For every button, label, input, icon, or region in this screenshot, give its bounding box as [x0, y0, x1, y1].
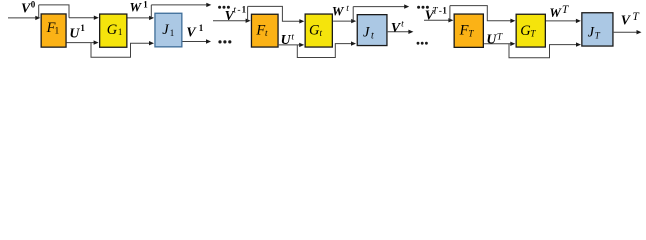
wire VT output: [614, 31, 637, 33]
svg-text:t: t: [346, 4, 349, 14]
box F1: [41, 14, 66, 47]
wire bypass over F1: [39, 5, 69, 18]
box FT: [454, 14, 483, 47]
svg-text:t: t: [401, 20, 404, 30]
svg-text:1: 1: [118, 27, 123, 37]
wire UT rail from FT to GT: [484, 43, 511, 45]
wire V(T-1) input arrow: [424, 19, 449, 21]
node junction on V(t-1) wire: [247, 6, 249, 20]
arrowhead V(T-1) into FT: [448, 18, 453, 22]
wire bypass over Ft: [248, 6, 301, 21]
wire V1 output: [183, 41, 207, 43]
wire Vt output: [388, 31, 409, 33]
wire Ut rail from Ft to Gt: [279, 44, 300, 46]
box JT: [582, 13, 613, 46]
node junction on Wt wire: [352, 7, 354, 22]
wire WT rail from GT to JT: [546, 20, 577, 22]
node junction on V0 wire: [38, 5, 40, 18]
box J1: [155, 13, 182, 47]
svg-text:1: 1: [199, 23, 204, 33]
svg-text:1: 1: [143, 0, 148, 9]
svg-text:F: F: [255, 22, 265, 38]
box Ft: [251, 14, 278, 47]
arrowhead UT into GT: [510, 42, 515, 46]
dots top between stage t and T: [417, 6, 420, 9]
svg-text:W: W: [130, 0, 143, 15]
wire V0 input arrow: [8, 17, 36, 19]
svg-text:G: G: [309, 22, 320, 38]
arrowhead bypass into GT: [510, 19, 515, 23]
svg-text:J: J: [162, 22, 169, 38]
svg-text:t: t: [291, 32, 294, 42]
svg-text:G: G: [107, 22, 118, 38]
wire W1 rail from G1 to J1: [128, 17, 151, 19]
svg-text:U: U: [281, 32, 292, 47]
svg-text:W: W: [549, 5, 562, 20]
svg-text:U: U: [486, 32, 497, 47]
wire under-bypass stage T: [509, 44, 577, 58]
svg-text:1: 1: [242, 4, 247, 14]
node junction on V(T-1) wire: [449, 6, 451, 21]
arrowhead bypass into Gt: [299, 19, 304, 23]
svg-text:W: W: [332, 3, 345, 18]
wire V(t-1) input arrow: [213, 20, 246, 22]
dots top between stage 1 and t: [218, 6, 221, 9]
wire under-bypass stage t: [297, 44, 351, 58]
node junction on W1 wire: [150, 5, 152, 18]
svg-text:J: J: [363, 24, 370, 40]
svg-text:U: U: [69, 25, 80, 40]
arrowhead V(t-1) into Ft: [246, 19, 251, 23]
svg-text:t: t: [371, 30, 374, 41]
svg-text:F: F: [459, 22, 469, 38]
svg-text:T: T: [432, 7, 438, 17]
box Jt: [357, 15, 387, 46]
svg-text:J: J: [588, 24, 595, 40]
svg-text:1: 1: [170, 28, 175, 38]
svg-text:1: 1: [55, 26, 60, 36]
arrowhead V1 output: [206, 39, 211, 43]
wire bypass over FT: [450, 6, 511, 21]
wire U1 rail from F1 to G1: [67, 42, 95, 44]
svg-text:T: T: [497, 33, 503, 43]
wire bypass into G1: [69, 17, 95, 19]
arrowhead bypass over J1: [206, 3, 211, 7]
svg-text:-: -: [237, 5, 240, 15]
wire under-bypass from U1 junction: [91, 43, 150, 58]
box Gt: [305, 14, 332, 47]
dots mid between stage t and T: [417, 42, 420, 45]
arrowhead Vt output: [408, 30, 413, 34]
svg-text:1: 1: [442, 6, 447, 16]
arrowhead W1 into J1: [149, 16, 154, 20]
box G1: [100, 14, 127, 47]
arrowhead V0 into F1: [35, 16, 40, 20]
wire bypass over Jt: [353, 6, 405, 8]
arrowhead WT into JT: [576, 19, 581, 23]
arrowhead under-bypass into JT: [576, 42, 581, 46]
arrowhead under-bypass into J1: [149, 41, 154, 45]
arrowhead Wt into Jt: [351, 19, 356, 23]
svg-text:0: 0: [31, 0, 36, 10]
svg-text:t: t: [233, 5, 236, 15]
dots mid between stage 1 and t: [218, 40, 221, 43]
arrowhead VT output: [637, 30, 642, 34]
svg-text:1: 1: [80, 23, 85, 33]
arrowhead under-bypass into Jt: [351, 41, 356, 45]
wire Wt rail from Gt to Jt: [333, 20, 352, 22]
box GT: [516, 14, 545, 47]
wire bypass over J1: [151, 4, 207, 6]
arrowhead into G1 top: [94, 16, 99, 20]
arrowhead bypass over Jt: [404, 4, 409, 8]
arrowhead Ut into Gt: [299, 43, 304, 47]
arrowhead U1 into G1: [94, 40, 99, 44]
